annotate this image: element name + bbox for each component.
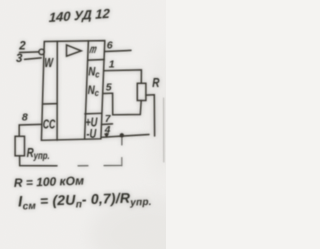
faint page edge line [163,98,165,162]
junction dot on -U rail [120,133,124,137]
wire pin 5 loop [104,93,141,115]
wiper tap of R [146,95,155,136]
svg-text:CC: CC [43,118,56,132]
divider above +U cell [85,112,102,115]
resistor Rupr body [15,136,24,156]
W / CC cell divider [43,103,57,105]
wire pin 6 (output) [105,50,131,51]
subtle paper shading bottom-right [90,195,210,249]
svg-text:2: 2 [18,41,26,53]
svg-text:3: 3 [16,53,23,65]
wire Rupr bottom [20,156,57,166]
wire pin 2 [20,51,39,54]
op-amp triangle symbol [67,45,82,56]
inner separator left column [56,41,58,140]
wire pin 7 stub [102,123,113,126]
paper background [0,0,166,249]
subtle paper shading right margin [148,45,176,185]
faint vertical from junction, upper part [121,135,123,145]
faint vertical from junction, lower stub [121,158,123,166]
wire pin 8 [19,124,41,136]
svg-text:4: 4 [104,125,111,136]
svg-text:7: 7 [105,114,111,125]
svg-text:8: 8 [22,112,28,124]
svg-text:6: 6 [107,40,113,52]
op-amp U1 body outline [41,41,104,141]
inner separator right column [85,41,89,139]
svg-text:Rупр.: Rупр. [27,147,50,161]
wire pin 3 [25,58,42,60]
svg-text:-U: -U [86,128,97,142]
scan ink-bleed halo [14,6,164,213]
svg-text:5: 5 [106,82,112,94]
faint bottom wire segment [104,165,122,167]
svg-text:1: 1 [109,58,115,70]
faint bottom wire segment [78,165,88,167]
wire pin 1 [104,70,141,83]
inverting input bubble [39,49,44,54]
svg-text:R = 100 кОм: R = 100 кОм [14,174,85,190]
svg-text:R: R [152,77,160,90]
divider under output cell [88,59,104,62]
pin 4 arrow [105,133,108,136]
svg-text:W: W [44,57,54,71]
resistor R body [137,83,146,100]
-U rail wire [101,135,149,138]
